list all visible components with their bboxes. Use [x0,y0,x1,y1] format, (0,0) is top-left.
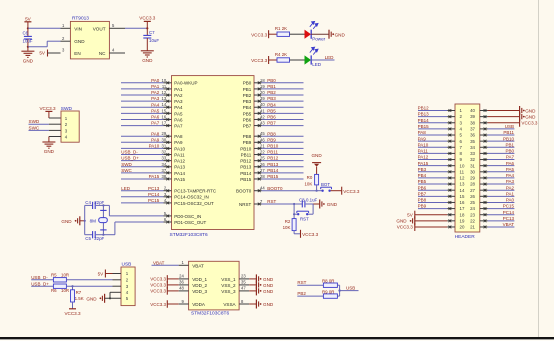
wire BOT to VCC3.3 [331,190,342,192]
U1 pin 37 PA14 + net label [164,172,172,174]
svg-text:10: 10 [460,163,465,168]
svg-text:VCC3.3: VCC3.3 [150,302,166,307]
U1 pin 32 PA11 + net label [164,154,172,156]
svg-text:VCC3.3: VCC3.3 [150,283,166,288]
svg-text:30: 30 [470,169,475,174]
svg-text:42: 42 [260,114,265,119]
svg-text:GND: GND [263,283,274,288]
svg-text:PC13: PC13 [148,186,160,191]
svg-text:10K: 10K [304,182,312,187]
svg-text:18: 18 [260,78,265,83]
connector P3 USB [121,267,135,306]
svg-text:C7: C7 [149,30,155,35]
svg-text:22pF: 22pF [94,200,104,205]
svg-text:15: 15 [460,194,465,199]
svg-text:VCC3.3: VCC3.3 [251,58,268,63]
svg-text:R2: R2 [285,219,291,224]
svg-text:GND: GND [23,58,34,63]
svg-text:C6: C6 [23,31,29,36]
svg-text:GND: GND [263,302,274,307]
svg-text:VSSA: VSSA [223,302,236,307]
svg-text:C8: C8 [299,198,305,203]
svg-text:GND: GND [525,114,536,119]
svg-text:PA10: PA10 [174,146,185,151]
resistor R0 [315,174,319,185]
svg-text:VSS_3: VSS_3 [221,289,236,294]
resistor R9 + value 0R [323,294,337,298]
wire USB_D- to R5 [31,279,53,281]
U1 pin 33 PA12 + net label [164,160,172,162]
svg-text:35: 35 [241,280,246,285]
svg-text:10: 10 [162,78,167,83]
svg-text:EN: EN [74,51,80,56]
pushbutton BOT [317,190,322,192]
svg-text:38: 38 [470,120,475,125]
svg-text:R9 0R: R9 0R [322,290,334,295]
svg-text:32: 32 [470,157,475,162]
svg-text:GND: GND [263,289,274,294]
svg-text:37: 37 [470,126,475,131]
svg-text:PB7: PB7 [267,121,276,126]
U1 pin 2 PC13 + net label LED [164,190,172,192]
svg-text:GND: GND [86,296,97,301]
svg-text:VSS_2: VSS_2 [221,283,236,288]
svg-text:PB3: PB3 [418,167,427,172]
U1 pin 27 PB14 + net label [254,172,262,174]
svg-text:47: 47 [241,286,246,291]
svg-text:PA13: PA13 [174,165,185,170]
svg-text:24: 24 [470,206,475,211]
svg-text:LED: LED [121,186,131,191]
svg-text:40: 40 [260,102,265,107]
svg-text:1.5K: 1.5K [75,296,84,301]
svg-text:PB8: PB8 [267,131,276,136]
svg-text:PB14: PB14 [418,118,430,123]
svg-text:21: 21 [470,225,475,230]
svg-text:PA8: PA8 [174,134,183,139]
wire R2 to VCC3.3 [293,231,295,234]
svg-text:32: 32 [162,150,167,155]
svg-text:PA6: PA6 [174,117,183,122]
svg-text:RST: RST [267,199,276,204]
svg-text:PA0: PA0 [506,198,515,203]
svg-text:PA7: PA7 [151,121,160,126]
wire top rail to PD0 [103,204,109,206]
svg-text:PA7: PA7 [174,123,183,128]
svg-text:17: 17 [460,206,465,211]
U2 pin 4 NC [109,52,125,54]
svg-text:25: 25 [260,156,265,161]
svg-text:PB13: PB13 [418,112,430,117]
svg-text:SWC: SWC [121,168,132,173]
svg-text:48: 48 [179,286,184,291]
junction [338,289,340,291]
wire PB2 to R9 [297,295,323,297]
svg-text:USB: USB [122,262,132,268]
U1 pin 16 PA6 + net label [164,118,172,120]
svg-text:PD0-OSC_IN: PD0-OSC_IN [174,214,201,219]
svg-text:15: 15 [162,108,167,113]
svg-text:R8 0R: R8 0R [322,279,334,284]
U1 pin 13 PA3 + net label [164,100,172,102]
mcu power block U1 STM32F103C8T6 [189,261,240,310]
svg-text:SWD: SWD [61,106,73,112]
svg-text:PB5: PB5 [418,179,427,184]
svg-text:VCC3.3: VCC3.3 [150,289,166,294]
svg-text:VBAT: VBAT [503,222,515,227]
U1 pin 5 PD0 [164,215,172,217]
U1 pin 29 PA8 + net label [164,135,172,137]
svg-text:HEADER: HEADER [455,234,476,240]
power port GND [328,30,330,39]
resistor R4 [277,58,290,62]
svg-text:16: 16 [460,200,465,205]
svg-text:20: 20 [460,225,465,230]
U1 pin 12 PA2 + net label [164,94,172,96]
wire NRST loop [293,204,295,214]
U1 pin 17 PA7 + net label [164,125,172,127]
resistor R8 + value 0R [323,283,337,287]
svg-text:24: 24 [179,274,184,279]
wire 5V to U2 VIN [28,27,61,29]
U1 pin 41 PB5 + net label [254,112,262,114]
svg-text:PB7: PB7 [418,191,427,196]
svg-text:22: 22 [470,218,475,223]
svg-text:PB9: PB9 [243,140,252,145]
svg-text:PB6: PB6 [243,117,252,122]
svg-text:PB13: PB13 [267,162,279,167]
svg-text:PB1: PB1 [505,142,514,147]
svg-text:PB13: PB13 [240,165,252,170]
svg-text:PC15: PC15 [503,204,515,209]
svg-text:VDDA: VDDA [192,302,206,307]
svg-text:19: 19 [460,218,465,223]
wire VOUT to VCC3.3 [125,27,147,29]
wire VCC3.3 to SWD pin1 [49,117,61,119]
svg-text:29: 29 [162,131,167,136]
svg-text:31: 31 [162,143,167,148]
U1 pin 18 PB0 + net label [254,82,262,84]
junction [293,203,295,205]
svg-text:PA5: PA5 [506,167,515,172]
wire R9 to junction [337,295,339,297]
svg-text:26: 26 [470,194,475,199]
svg-text:USB: USB [505,124,514,129]
svg-text:PB4: PB4 [418,173,427,178]
svg-text:PC14-OSC32_IN: PC14-OSC32_IN [174,195,209,200]
svg-text:C5: C5 [85,236,91,241]
svg-text:PB8: PB8 [418,198,427,203]
svg-text:GND: GND [74,39,85,44]
svg-text:RST: RST [300,217,309,222]
svg-text:12: 12 [460,176,465,181]
svg-text:14: 14 [162,102,167,107]
svg-text:PA0: PA0 [151,78,160,83]
connector P2 SWD [61,111,79,142]
svg-text:PB10: PB10 [503,136,515,141]
svg-text:PA1: PA1 [174,87,183,92]
ground [48,137,50,142]
U1 pin 22 PB11 + net label [254,154,262,156]
svg-text:PA11: PA11 [418,149,429,154]
svg-text:PA5: PA5 [151,108,160,113]
svg-text:GND: GND [311,153,322,158]
wire crystal left rail [84,205,86,234]
svg-text:VCC3.3: VCC3.3 [139,16,156,21]
svg-text:39: 39 [470,114,475,119]
svg-text:10uF: 10uF [149,38,159,43]
svg-text:PB7: PB7 [243,123,252,128]
svg-text:VCC3.3: VCC3.3 [397,225,414,230]
svg-text:VDD_2: VDD_2 [192,283,207,288]
U1 pin 40 PB4 + net label [254,106,262,108]
svg-text:SWD: SWD [29,119,40,124]
svg-text:R1 2K: R1 2K [275,26,287,31]
svg-text:NC: NC [99,51,106,56]
svg-text:GND: GND [142,58,153,63]
svg-text:5V: 5V [39,51,46,56]
svg-text:VCC3.3: VCC3.3 [39,106,56,111]
svg-text:36: 36 [179,280,184,285]
svg-text:USB_D+: USB_D+ [121,156,139,161]
svg-text:VCC3.3: VCC3.3 [343,189,360,194]
U1 pin 3 PC14 [164,196,172,198]
wire R4 to LED [290,59,305,61]
svg-text:PC13-TAMPER-RTC: PC13-TAMPER-RTC [174,189,217,194]
power port GND [319,200,321,209]
svg-text:37: 37 [162,168,167,173]
svg-text:R0: R0 [307,175,313,180]
svg-text:PA4: PA4 [151,102,160,107]
power port VCC3.3 [69,308,76,310]
svg-text:PA9: PA9 [418,136,427,141]
svg-text:VDD_1: VDD_1 [192,277,207,282]
wire USB_D+ to R6 [31,285,53,287]
svg-text:PB15: PB15 [240,177,252,182]
U1 pin 7 NRST + net label RST [254,203,262,205]
crystal Y1 8M [102,205,104,234]
R0 lead [316,185,318,191]
svg-text:PC15: PC15 [148,198,160,203]
svg-text:28: 28 [260,174,265,179]
svg-text:44: 44 [260,186,265,191]
U1 pin 6 PD1 [164,221,172,223]
svg-text:PB2: PB2 [297,291,306,296]
resistor R1 [277,32,290,36]
wire bottom rail to PD1 [103,234,115,236]
svg-text:PC15-OSC32_OUT: PC15-OSC32_OUT [174,201,214,206]
svg-text:VBAT: VBAT [153,260,165,265]
svg-text:PA10: PA10 [149,144,160,149]
svg-text:PA6: PA6 [506,161,515,166]
junction [316,190,318,192]
svg-text:USB_D-: USB_D- [121,150,138,155]
wire R8 to junction [337,284,339,286]
svg-text:LED: LED [325,55,335,60]
svg-text:13: 13 [162,96,167,101]
svg-text:18: 18 [460,212,465,217]
svg-text:PA4: PA4 [174,105,183,110]
capacitor C6 [27,28,29,36]
svg-text:33: 33 [470,151,475,156]
svg-text:PB14: PB14 [240,171,252,176]
junction [71,285,73,287]
svg-text:PC14: PC14 [148,192,160,197]
svg-text:PB12: PB12 [418,106,430,111]
U1 pin 44 BOOT0 + net label [254,190,262,192]
svg-text:PB5: PB5 [243,111,252,116]
svg-text:38: 38 [162,174,167,179]
wire USB net + net label USB [340,290,359,292]
capacitor C5 [85,234,93,236]
svg-text:22: 22 [260,150,265,155]
svg-text:R7: R7 [76,290,82,295]
junction [27,27,29,29]
wire R5 to pin2 [66,279,112,281]
SWD pin 4 wire [49,136,61,138]
svg-text:VDD_3: VDD_3 [192,289,207,294]
svg-text:GND: GND [44,149,55,154]
svg-text:46: 46 [260,137,265,142]
svg-text:19: 19 [260,84,265,89]
wire R6 to pin3 [66,285,112,287]
wire R7 to VCC3.3 [72,302,74,309]
svg-text:PA5: PA5 [174,111,183,116]
U1 pin 26 PB13 + net label [254,166,262,168]
svg-text:PA0-WKUP: PA0-WKUP [174,81,197,86]
power port VCC3.3 [341,187,343,195]
svg-text:PA2: PA2 [151,90,160,95]
svg-text:GND: GND [335,32,346,37]
svg-text:PB4: PB4 [267,102,276,107]
U1 pin 10 PA0-WKUP + net label [164,82,172,84]
wire R1 to LED [290,33,305,35]
svg-text:PA11: PA11 [174,152,185,157]
svg-text:SWD: SWD [121,162,132,167]
junction [146,27,148,29]
svg-text:PB0: PB0 [243,81,252,86]
svg-text:PA9: PA9 [174,140,183,145]
U1 pin 14 PA4 + net label [164,106,172,108]
svg-text:PA8: PA8 [418,130,427,135]
wire LED to GND [311,33,328,35]
capacitor C4 [85,204,93,206]
svg-text:25: 25 [470,200,475,205]
svg-text:13: 13 [460,182,465,187]
capacitor C8 [294,203,302,205]
svg-text:BOT: BOT [321,182,330,187]
regulator U2 RT9013 [70,21,109,59]
U1 pin 25 PB12 + net label [254,160,262,162]
U2 pin 2 GND [61,40,71,42]
svg-text:PB2: PB2 [267,90,276,95]
svg-text:20: 20 [260,90,265,95]
svg-text:35: 35 [470,139,475,144]
svg-text:16: 16 [162,114,167,119]
svg-text:PB4: PB4 [243,105,252,110]
svg-text:PC14: PC14 [503,210,515,215]
U1 pin 46 PB9 + net label [254,141,262,143]
junction [27,46,29,48]
U1 pin 43 PB7 + net label [254,125,262,127]
svg-text:PB0: PB0 [505,149,514,154]
svg-text:PB11: PB11 [241,152,252,157]
svg-text:GND: GND [327,202,338,207]
svg-text:5V: 5V [98,272,105,277]
svg-text:PB15: PB15 [418,124,430,129]
svg-text:PA9: PA9 [151,137,160,142]
ground [27,47,29,51]
svg-text:USB_D-: USB_D- [31,275,48,280]
resistor R6 + value 10R [53,284,66,288]
svg-text:VCC3.3: VCC3.3 [150,277,166,282]
svg-text:PB8: PB8 [243,134,252,139]
svg-text:BOOT0: BOOT0 [267,186,283,191]
svg-text:PA2: PA2 [506,185,515,190]
svg-text:PA2: PA2 [174,93,183,98]
svg-text:5V: 5V [407,212,414,217]
svg-text:11: 11 [460,169,465,174]
U2 pin 1 VIN [61,27,71,29]
LED emission arrows [310,21,318,28]
svg-text:RST: RST [297,280,306,285]
svg-text:PA4: PA4 [506,173,515,178]
svg-text:PB11: PB11 [503,130,514,135]
svg-text:VCC3.3: VCC3.3 [64,311,81,316]
mcu U1 STM32F103C8T6 [172,76,255,230]
svg-text:12: 12 [162,90,167,95]
svg-text:LED: LED [312,62,322,67]
svg-text:26: 26 [260,162,265,167]
svg-text:R5: R5 [51,273,57,278]
svg-text:VCC3.3: VCC3.3 [251,32,268,37]
svg-text:PD1-OSC_OUT: PD1-OSC_OUT [174,220,206,225]
U1 pin 21 PB10 + net label [254,147,262,149]
svg-text:40: 40 [470,108,475,113]
wire LED net [311,59,334,61]
junction [293,213,295,215]
svg-text:PA15: PA15 [149,174,160,179]
svg-text:PA1: PA1 [151,84,160,89]
svg-text:PA15: PA15 [418,161,429,166]
U1 pin 19 PB1 + net label [254,88,262,90]
svg-text:PB10: PB10 [267,144,279,149]
resistor R2 [293,214,295,218]
svg-text:SWC: SWC [29,126,40,131]
svg-text:R6: R6 [51,288,57,293]
svg-text:5V: 5V [25,16,32,21]
svg-text:PA12: PA12 [174,159,185,164]
wire C8 to GND [313,203,319,205]
power port VCC3.3 [300,230,302,238]
U1 pin 28 PB15 + net label [254,178,262,180]
svg-text:27: 27 [470,188,475,193]
resistor R5 + value 10R [53,278,66,282]
svg-text:34: 34 [470,145,475,150]
svg-text:GND: GND [61,219,72,224]
svg-text:PB5: PB5 [267,108,276,113]
svg-text:PB2: PB2 [243,93,252,98]
svg-text:PA14: PA14 [174,171,185,176]
svg-text:11: 11 [162,84,167,89]
svg-text:PB9: PB9 [267,137,276,142]
svg-text:VBAT: VBAT [192,263,204,268]
svg-text:USB: USB [346,286,355,291]
svg-text:0.1uF: 0.1uF [306,198,318,203]
wire GND jog to U2 pin2 [28,46,47,48]
LED emission arrows [310,47,318,54]
svg-text:PA3: PA3 [506,179,515,184]
